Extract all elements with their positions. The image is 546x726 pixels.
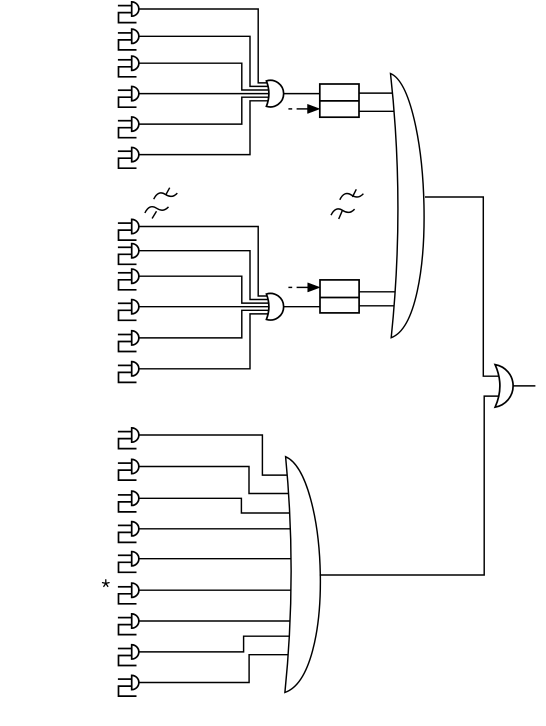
wire B2 q-top to OR4 (359, 291, 397, 293)
wire B2 q-bottom to OR4 (359, 305, 397, 307)
AND gate U15 (bottom group input 3) (118, 491, 139, 512)
OR gate OR6 (final output OR) (495, 365, 513, 408)
wire OR5 output to OR6 input B (320, 396, 500, 575)
wire U3 to OR1 (139, 63, 270, 90)
dashed clock arrow to B1 (288, 104, 319, 113)
break squiggle right-upper (340, 193, 364, 199)
OR gate OR5 (wide OR, lower) (285, 457, 320, 693)
wire U5 to OR1 (139, 97, 270, 124)
AND gate U2 (top group input 2) (118, 29, 139, 50)
wire OR6 output (513, 385, 535, 387)
AND gate U14 (bottom group input 2) (118, 459, 139, 480)
register box B2 (320, 280, 359, 313)
wire U7 to OR2 (139, 227, 270, 297)
AND gate U5 (top group input 5) (118, 117, 139, 138)
break slash right-lower (339, 210, 343, 219)
AND gate U13 (bottom group input 1) (118, 428, 139, 449)
wire U14 to OR5 (139, 467, 294, 494)
wire U21 to OR5 (139, 655, 294, 683)
wire U19 to OR5 (139, 620, 294, 622)
AND gate U16 (bottom group input 4) (118, 522, 139, 543)
wire U18 to OR5 (139, 589, 294, 591)
break squiggle left-lower (145, 207, 169, 213)
AND gate U3 (top group input 3) (118, 56, 139, 77)
register box B1 (320, 84, 359, 117)
OR gate OR2 (middle collector) (266, 293, 283, 320)
wire B1 q-bottom to OR4 (359, 110, 397, 112)
AND gate U8 (middle group input 2) (118, 244, 139, 265)
AND gate U10 (middle group input 4) (118, 300, 139, 321)
wire B1 q-top to OR4 (359, 92, 397, 94)
wire OR4 output to OR6 input A (425, 197, 500, 376)
AND gate U11 (middle group input 5) (118, 331, 139, 352)
break squiggle left-upper (154, 193, 178, 199)
wire U13 to OR5 (139, 435, 294, 475)
wire U17 to OR5 (139, 558, 294, 560)
wire U9 to OR2 (139, 276, 270, 303)
wire U10 to OR2 (139, 306, 270, 308)
AND gate U1 (top group input 1) (118, 2, 139, 23)
wire U15 to OR5 (139, 498, 294, 513)
OR gate OR1 (top collector) (266, 80, 283, 107)
wire U2 to OR1 (139, 36, 270, 86)
dashed clock arrow to B2 (288, 283, 320, 292)
break slash right-upper (352, 189, 356, 197)
wire U4 to OR1 (139, 93, 270, 95)
break slash left-lower (152, 211, 156, 218)
wire U8 to OR2 (139, 251, 270, 300)
wire OR1 output to register B1 (283, 93, 319, 95)
wire U11 to OR2 (139, 310, 270, 338)
break squiggle right-lower (331, 209, 355, 215)
AND gate U18 (bottom group input 6) (118, 583, 139, 604)
wire U16 to OR5 (139, 528, 294, 530)
AND gate U7 (middle group input 1) (118, 219, 139, 240)
wire OR2 output to register B2 (283, 306, 320, 308)
AND gate U12 (middle group input 6) (118, 362, 139, 383)
wire U1 to OR1 (139, 9, 270, 83)
break slash left-upper (166, 188, 170, 195)
wire U12 to OR2 (139, 314, 270, 369)
AND gate U21 (bottom group input 9) (118, 675, 139, 696)
wire U20 to OR5 (139, 636, 294, 652)
AND gate U4 (top group input 4) (118, 86, 139, 107)
AND gate U20 (bottom group input 8) (118, 645, 139, 666)
OR gate OR4 (wide OR, upper) (391, 74, 425, 338)
AND gate U6 (top group input 6) (118, 147, 139, 168)
AND gate U9 (middle group input 3) (118, 269, 139, 290)
asterisk annotation (103, 580, 110, 587)
wire U6 to OR1 (139, 101, 270, 155)
AND gate U17 (bottom group input 5) (118, 552, 139, 573)
AND gate U19 (bottom group input 7) (118, 614, 139, 635)
